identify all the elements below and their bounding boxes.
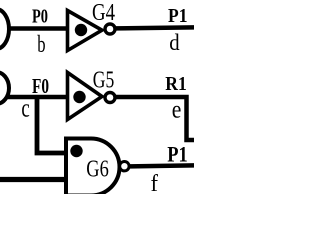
gate G2 (partial ellipse, cut by left edge)	[0, 72, 9, 104]
fault dot in G5	[73, 91, 85, 103]
inverter G4	[68, 11, 103, 51]
wire from gate G3 (off-canvas left) to G6 lower input	[0, 177, 67, 182]
fault dot in G4	[75, 24, 87, 36]
svg-text:P1: P1	[167, 141, 188, 166]
svg-text:G6: G6	[86, 156, 109, 183]
branch wire from net F0 down to G6 upper input	[37, 97, 67, 153]
inverter G5	[68, 73, 103, 120]
G5 output bubble	[105, 93, 115, 103]
svg-text:P1: P1	[168, 5, 188, 27]
wire e (net R1, G5 output, turns down and exits right edge)	[116, 97, 195, 140]
G6 output bubble	[120, 162, 129, 171]
wire c (net F0, G2 output to G5 input)	[6, 95, 68, 100]
svg-text:d: d	[169, 30, 180, 55]
nand gate G6	[66, 139, 120, 198]
svg-text:G4: G4	[92, 0, 115, 26]
wire d (net P1, G4 output to right edge)	[116, 27, 195, 28]
G4 output bubble	[105, 24, 115, 34]
wire b (net P0, G1 output to G4 input)	[7, 26, 68, 31]
svg-text:e: e	[172, 97, 182, 124]
gate G1 (partial ellipse, cut by left edge)	[0, 9, 9, 49]
svg-text:R1: R1	[165, 73, 187, 95]
wire f (net P1, G6 output to right edge)	[130, 165, 195, 166]
svg-text:P0: P0	[32, 6, 48, 28]
svg-text:F0: F0	[32, 74, 49, 98]
svg-text:b: b	[37, 31, 45, 58]
svg-text:f: f	[151, 171, 159, 194]
fault dot in G6	[70, 145, 82, 157]
svg-text:G5: G5	[93, 66, 115, 93]
svg-text:c: c	[21, 93, 29, 122]
